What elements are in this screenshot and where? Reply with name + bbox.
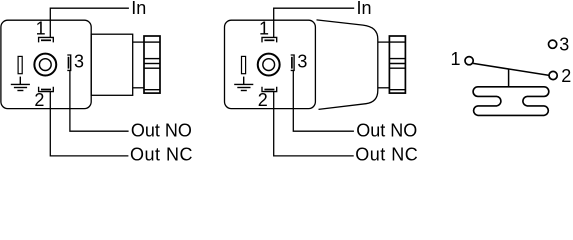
cable gland connector B [389, 36, 405, 93]
wire pin1 riser connector B [274, 8, 355, 37]
switch contact 3 circle [549, 40, 557, 48]
pin 1 terminal connector A [39, 37, 54, 42]
svg-text:3: 3 [297, 52, 307, 72]
ground symbol connector B [234, 77, 253, 91]
centre screw outer circle connector A [34, 54, 56, 76]
pin 2 terminal connector B [262, 87, 277, 92]
connector A body front face [1, 20, 91, 108]
connector B neck bottom edge [378, 87, 390, 89]
wire pin1 riser connector A [50, 8, 129, 37]
svg-text:2: 2 [34, 90, 44, 110]
switch contact 2 circle [549, 71, 557, 79]
wire pin3 to Out NO connector B [293, 71, 354, 131]
connector A neck top edge [133, 41, 144, 43]
wire pin2 to Out NC connector A [50, 92, 128, 156]
centre screw inner circle connector A [39, 59, 51, 71]
wire pin2 to Out NC connector B [274, 92, 354, 156]
cable gland connector A [144, 36, 160, 93]
pin 3 terminal connector A [67, 55, 70, 70]
centre screw outer circle connector B [258, 54, 280, 76]
connector A neck bottom edge [133, 87, 144, 89]
pin 3 terminal connector B [291, 55, 294, 70]
pin 1 terminal connector B [262, 37, 277, 42]
actuator link wire [508, 69, 510, 87]
svg-text:Out NC: Out NC [130, 144, 193, 162]
svg-text:In: In [357, 0, 372, 18]
svg-text:1: 1 [36, 19, 46, 39]
pin 2 terminal connector A [39, 87, 54, 92]
connector B tapered housing [317, 20, 378, 110]
earth terminal connector B [242, 56, 246, 73]
connector B neck top edge [378, 41, 390, 43]
wire pin3 to Out NO connector A [70, 71, 129, 131]
ground symbol connector A [11, 77, 30, 91]
svg-text:In: In [131, 0, 146, 18]
svg-text:3: 3 [74, 52, 84, 72]
svg-text:Out NC: Out NC [355, 144, 418, 162]
svg-text:3: 3 [559, 35, 569, 55]
earth terminal connector A [18, 56, 22, 73]
svg-text:2: 2 [561, 66, 571, 86]
cable gland ribs connector B [389, 42, 405, 90]
switch contact 1 circle [465, 57, 473, 65]
centre screw inner circle connector B [263, 59, 275, 71]
svg-text:1: 1 [450, 49, 460, 69]
svg-text:1: 1 [259, 19, 269, 39]
connector A housing mid section [91, 34, 133, 95]
svg-text:Out NO: Out NO [131, 120, 192, 140]
cable gland ribs connector A [144, 42, 160, 90]
pressure sensing bellows element [473, 87, 549, 116]
svg-text:2: 2 [258, 90, 268, 110]
svg-text:Out NO: Out NO [356, 120, 417, 140]
switch lever wire [473, 63, 549, 75]
connector B body front face [225, 20, 316, 108]
